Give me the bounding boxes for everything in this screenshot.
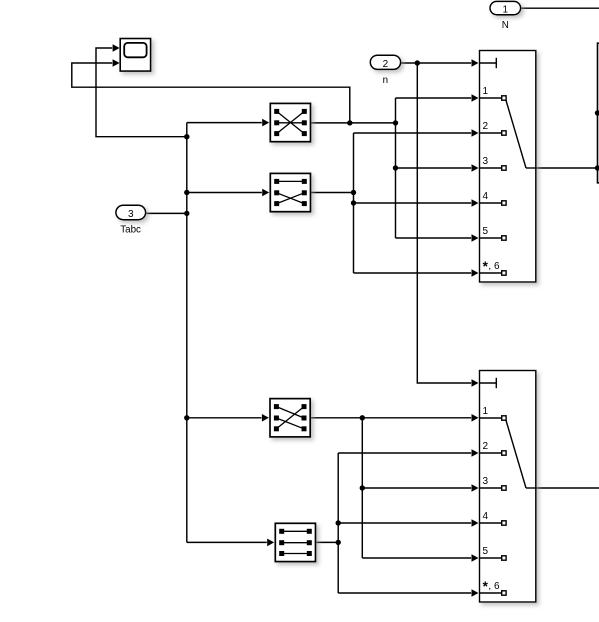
junction: Selector B out / trunk B	[351, 190, 356, 195]
svg-text:2: 2	[383, 59, 389, 70]
wire: vertical trunk B (feeds switch1 ports 2,4,6)	[353, 133, 355, 273]
selector block D (identity)	[275, 523, 315, 561]
junction: trunk/Tabc	[184, 211, 189, 216]
wire: to switch2 port 3	[362, 487, 471, 489]
wire: Selector B output horizontal	[311, 192, 354, 194]
svg-text:1: 1	[503, 5, 509, 16]
svg-text:3: 3	[483, 156, 489, 167]
wire: to switch1 port 5	[396, 237, 472, 239]
svg-text:n: n	[383, 75, 388, 86]
wire: trunk branch to Scope input 1	[96, 48, 187, 137]
wire: n trunk down to switch2 control	[417, 63, 471, 383]
wire: to switch1 port 3	[396, 167, 472, 169]
svg-text:, 6: , 6	[488, 581, 500, 592]
wire: inport n to switch1 control	[401, 62, 471, 64]
wire: switch1 output to right block	[526, 167, 598, 169]
wire: vertical trunk C (feeds switch2 ports 3,5)	[361, 418, 363, 558]
junction: trunk C / port 3	[360, 485, 365, 490]
junction: Selector A out / scope branch	[347, 120, 352, 125]
scope block	[120, 39, 150, 72]
junction: right block upper	[595, 110, 599, 115]
wire: Tabc trunk vertical	[186, 123, 188, 543]
junction: Selector C out / trunk C	[360, 415, 365, 420]
wire: switch2 output to right edge	[526, 487, 599, 489]
svg-text:2: 2	[483, 121, 489, 132]
wire: Selector D output horizontal	[316, 541, 339, 543]
wire: inport N to right edge	[521, 7, 599, 9]
wire: to switch2 port 4	[338, 522, 471, 524]
wire: to switch1 port *,6	[354, 272, 472, 274]
svg-text:1: 1	[483, 86, 489, 97]
junction: trunk D / port 4	[336, 520, 341, 525]
selector block B (swap 2-3)	[270, 173, 310, 211]
svg-text:3: 3	[483, 476, 489, 487]
multiport switch 1 (top)	[480, 51, 536, 283]
svg-text:5: 5	[483, 226, 489, 237]
svg-text:2: 2	[483, 441, 489, 452]
wire: Selector A output branch to Scope input 2	[72, 63, 350, 123]
svg-text:4: 4	[483, 511, 489, 522]
wire: Selector A output horizontal	[311, 122, 396, 124]
svg-text:3: 3	[128, 209, 134, 220]
wire: to switch2 port 5	[362, 557, 471, 559]
junction: right block / switch1 output	[595, 165, 599, 170]
junction: trunk/Selector C branch	[184, 415, 189, 420]
wire: trunk to Selector A input	[187, 122, 262, 124]
wire: to switch2 port *,6	[338, 592, 471, 594]
svg-text:5: 5	[483, 546, 489, 557]
inport 1 (N)	[490, 1, 521, 31]
junction: trunk A / port 3	[393, 165, 398, 170]
wire: to switch1 port 1	[396, 97, 472, 99]
svg-text:1: 1	[483, 406, 489, 417]
junction: Selector D out / trunk D	[336, 540, 341, 545]
wire: trunk to Selector B input	[187, 192, 262, 194]
svg-text:N: N	[502, 20, 509, 31]
junction: trunk/Selector B branch	[184, 190, 189, 195]
wire: Tabc inport to trunk	[146, 212, 187, 214]
wire: vertical trunk A (feeds switch1 ports 1,3,5)	[395, 98, 397, 238]
junction: trunk/scope branch	[184, 134, 189, 139]
svg-text:Tabc: Tabc	[120, 224, 141, 235]
wire: to switch1 port 4	[354, 202, 472, 204]
multiport switch 2 (bottom)	[480, 371, 536, 603]
wire: to switch2 port 2	[338, 452, 471, 454]
wire: trunk to Selector D input	[187, 541, 267, 543]
wire: vertical trunk D (feeds switch2 ports 2,4,6)	[337, 453, 339, 593]
right partial block (cut off at edge)	[598, 43, 599, 183]
wire: trunk to Selector C input	[187, 417, 262, 419]
svg-text:4: 4	[483, 191, 489, 202]
selector block A (swap 1-3)	[270, 103, 310, 141]
junction: trunk B / port 4	[351, 200, 356, 205]
inport 3 (Tabc)	[116, 205, 146, 235]
junction: Selector A out / trunk A	[393, 120, 398, 125]
wire: to switch1 port 2	[354, 132, 472, 134]
wire: Selector C output to switch2 port 1	[310, 417, 471, 419]
svg-text:, 6: , 6	[488, 261, 500, 272]
junction: n wire / n trunk	[415, 60, 420, 65]
selector block C (cyclic)	[270, 399, 310, 437]
inport 2 (n)	[370, 55, 400, 86]
